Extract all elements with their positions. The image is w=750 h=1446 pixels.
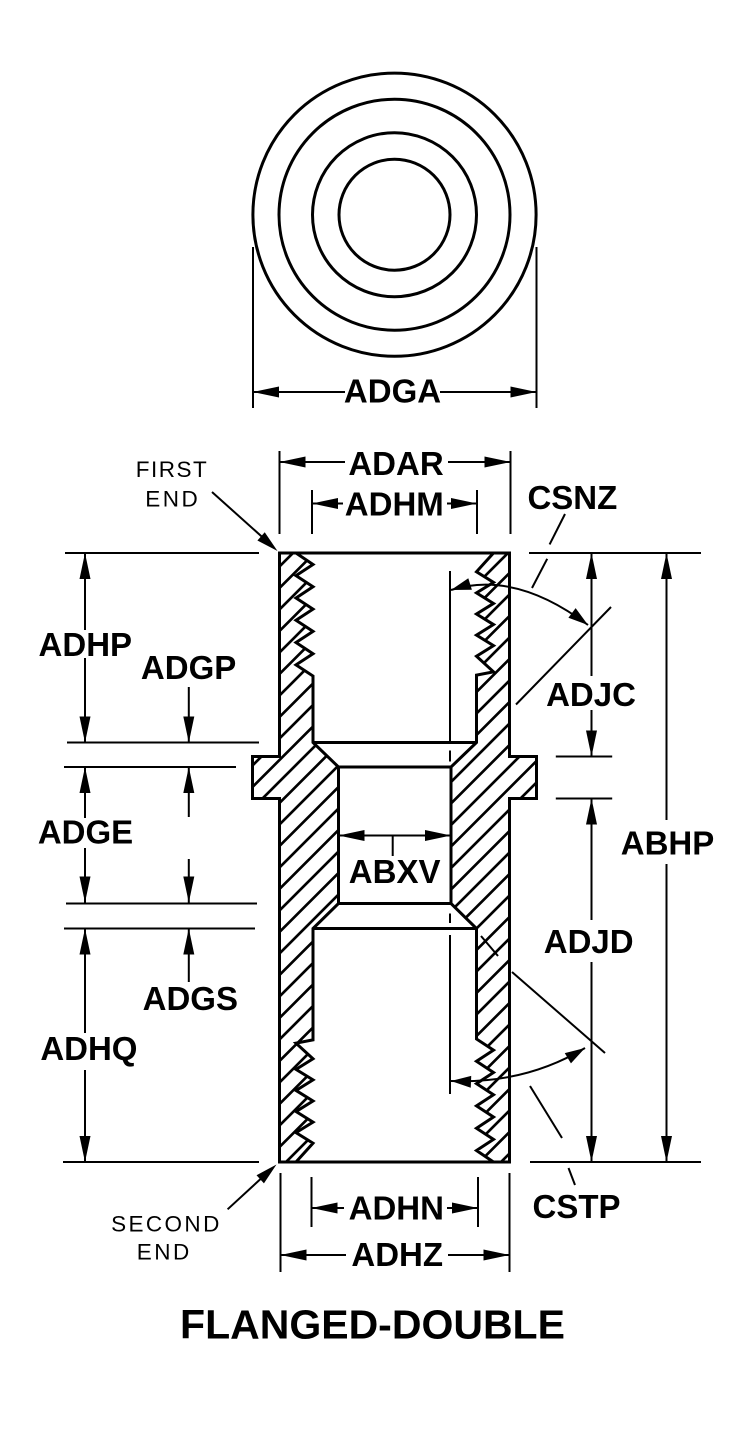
upper bore shoulder line — [313, 741, 477, 744]
lower thread pitch line — [449, 935, 451, 1094]
leader CSNZ upper segment — [550, 514, 565, 544]
svg-text:CSNZ: CSNZ — [527, 479, 617, 516]
svg-text:ADHM: ADHM — [345, 486, 444, 523]
arc arrowhead at lower pitch line — [451, 1076, 471, 1088]
middle bore bottom line — [339, 902, 452, 905]
lower bore top extension line left — [64, 928, 255, 930]
dimension ADAR line left segment — [280, 461, 346, 463]
upper thread pitch line — [449, 571, 451, 743]
right wall hatched section — [451, 553, 537, 1162]
dimension ADHZ extension line left — [280, 1173, 282, 1272]
dimension ADHZ arrowhead left — [281, 1250, 307, 1261]
svg-text:END: END — [145, 487, 200, 512]
upper pitch line hidden dash — [449, 751, 451, 762]
bottom edge extension line left — [63, 1161, 259, 1163]
svg-text:SECOND: SECOND — [111, 1212, 222, 1237]
dimension ADHP line — [84, 553, 86, 630]
dimension ABXV arrowheads — [339, 830, 365, 841]
left wall hatched section — [253, 553, 339, 1162]
dimension ADHZ line left segment — [281, 1254, 347, 1256]
dimension ADHN extension line right — [477, 1177, 479, 1227]
dimension ADHP arrowheads — [80, 553, 91, 579]
dimension ADHZ line right segment — [448, 1254, 510, 1256]
dimension ADHM arrowhead left — [312, 498, 338, 509]
dimension ADGA line right segment — [440, 391, 537, 393]
dimension ADAR arrowhead right — [485, 457, 511, 468]
dimension ADAR line right segment — [448, 461, 511, 463]
lower bore top line — [313, 927, 477, 930]
flange top extension line right — [556, 756, 612, 758]
svg-text:ABHP: ABHP — [621, 825, 715, 862]
right inner profile with threads — [451, 553, 494, 1162]
dimension ADHM extension line right — [476, 490, 478, 534]
dimension ADHM line right segment — [447, 503, 477, 505]
arc arrowhead at diagonal — [568, 608, 588, 625]
dimension ADHN arrowhead left — [312, 1203, 338, 1214]
dimension ABHP arrowheads — [661, 553, 672, 579]
dimension ADAR extension line left — [279, 451, 281, 534]
left inner profile with threads — [296, 553, 339, 1162]
thread callout arc CSNZ — [451, 585, 588, 625]
leader CSTP lower segment — [569, 1168, 576, 1185]
dimension ADGA extension line right — [536, 247, 538, 408]
top view: body outer circle — [279, 99, 510, 330]
dimension ADHN line left segment — [312, 1207, 345, 1209]
dimension ADHN extension line left — [311, 1177, 313, 1227]
dimension ADGA arrowhead left — [253, 387, 279, 398]
bottom edge of body — [278, 1161, 511, 1164]
dimension ADJC line — [591, 553, 593, 676]
dimension ADGP lower arrow — [188, 767, 190, 817]
leader arrow FIRST END — [212, 492, 270, 544]
dimension ADHN arrowhead right — [452, 1203, 478, 1214]
svg-text:FLANGED-DOUBLE: FLANGED-DOUBLE — [180, 1302, 565, 1348]
shoulder extension line left — [67, 742, 259, 744]
dimension ADHQ arrowheads — [80, 929, 91, 955]
top edge extension line left — [65, 552, 259, 554]
svg-text:ADHN: ADHN — [349, 1190, 444, 1227]
svg-text:ADHZ: ADHZ — [351, 1236, 443, 1273]
left outer wall and flange outline — [253, 553, 280, 1162]
dimension ADGE line — [84, 767, 86, 818]
top edge of body — [278, 552, 511, 555]
svg-text:ADGS: ADGS — [143, 980, 238, 1017]
flange bottom extension line right — [556, 798, 612, 800]
lower pitch line hidden dash — [449, 914, 451, 924]
dimension ADGA line left segment — [253, 391, 345, 393]
svg-text:ADGE: ADGE — [38, 814, 133, 851]
top edge extension line right — [529, 552, 701, 554]
dimension ABXV tick — [392, 836, 394, 857]
leader CSNZ lower segment — [532, 559, 547, 588]
dimension ADGE arrowheads — [80, 767, 91, 793]
dimension ADAR arrowhead left — [280, 457, 306, 468]
dimension ADJD arrowheads — [586, 799, 597, 825]
dimension ADHM arrowhead right — [451, 498, 477, 509]
middle bore bottom extension line left — [66, 903, 257, 905]
dimension ABXV line — [339, 835, 452, 837]
thread callout diagonal line CSTP — [512, 972, 605, 1053]
dimension ADHM line left segment — [312, 503, 343, 505]
svg-text:ADAR: ADAR — [348, 445, 443, 482]
dimension ADJD line — [591, 799, 593, 921]
thread callout diagonal dash CSTP — [481, 936, 498, 956]
dimension ADHN line right segment — [447, 1207, 478, 1209]
right outer wall and flange outline — [510, 553, 537, 1162]
svg-text:ADJD: ADJD — [544, 923, 634, 960]
dimension ADGA extension line left — [252, 247, 254, 408]
bottom edge extension line right — [530, 1161, 701, 1163]
dimension ABHP line — [666, 553, 668, 820]
top view: flange outer circle — [253, 73, 536, 356]
thread callout arc CSTP — [451, 1048, 585, 1081]
svg-text:ADHP: ADHP — [39, 626, 133, 663]
arc arrowhead at thread pitch line — [451, 578, 472, 590]
dimension ADHZ extension line right — [509, 1173, 511, 1272]
svg-text:ABXV: ABXV — [349, 853, 441, 890]
middle bore top line — [339, 766, 452, 769]
dimension ADHQ line — [84, 929, 86, 1034]
dimension ADHM extension line left — [311, 490, 313, 534]
dimension ADGS upper arrow — [188, 859, 190, 903]
svg-text:END: END — [137, 1240, 192, 1265]
svg-text:ADGA: ADGA — [344, 373, 441, 410]
arc arrowhead at lower diagonal — [565, 1048, 585, 1063]
leader CSTP upper segment — [530, 1086, 562, 1138]
dimension ADGS lower arrow — [188, 929, 190, 983]
dimension ADGP arrow — [188, 687, 190, 743]
svg-text:ADGP: ADGP — [141, 649, 236, 686]
middle bore top extension line left — [64, 766, 236, 768]
dimension ADHZ arrowhead right — [484, 1250, 510, 1261]
dimension ADAR extension line right — [510, 451, 512, 534]
thread callout diagonal line CSNZ — [516, 607, 611, 705]
svg-text:ADHQ: ADHQ — [40, 1030, 137, 1067]
svg-text:CSTP: CSTP — [532, 1188, 620, 1225]
svg-text:ADJC: ADJC — [546, 676, 636, 713]
svg-text:FIRST: FIRST — [136, 457, 209, 482]
top view: inner hole circle — [339, 159, 450, 270]
dimension ADGA arrowhead right — [511, 387, 537, 398]
dimension ADJC arrowheads — [586, 553, 597, 579]
top view: bore circle — [313, 133, 477, 297]
leader arrow SECOND END — [228, 1174, 266, 1209]
